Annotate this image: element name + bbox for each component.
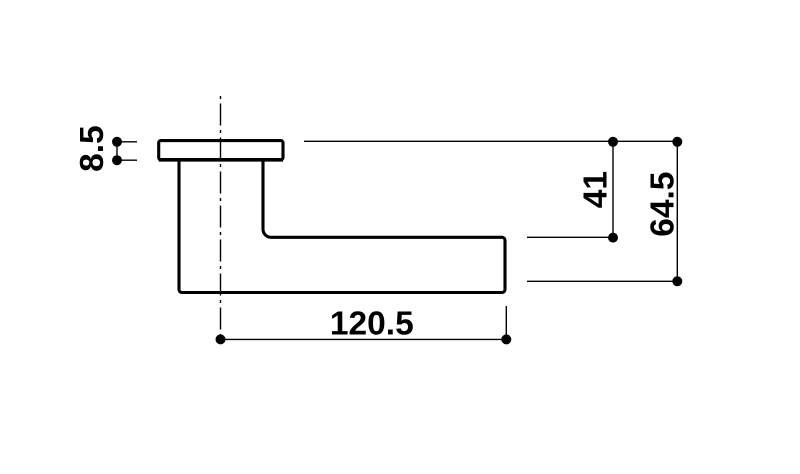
- dim 120.5 : right extension line: [505, 306, 507, 339]
- rose bottom edge (drawn heavier): [159, 158, 283, 162]
- dim 8.5 : extension stub top: [117, 141, 137, 143]
- dim 64.5 : dot bottom: [672, 276, 682, 286]
- svg-text:8.5: 8.5: [74, 125, 111, 172]
- svg-text:41: 41: [578, 171, 615, 208]
- dim 8.5 : extension stub bottom: [117, 159, 137, 161]
- handle lever outline (neck + L-shaped lever): [179, 160, 505, 293]
- shared top extension line (from rose top to 64.5 line): [304, 140, 677, 142]
- dim 41 : bottom extension line: [527, 236, 613, 238]
- dim 41 : dot top: [608, 137, 618, 147]
- dim 64.5 : bottom extension line: [527, 280, 677, 282]
- dim 41 : dot bottom: [608, 233, 618, 243]
- dim 8.5 : dot top: [112, 137, 122, 147]
- rose (rosette seen from side, 8.5 thick): [159, 141, 283, 160]
- dim 8.5 : dot bottom: [112, 155, 122, 165]
- centerline (dash-dot vertical axis of rose): [220, 96, 222, 340]
- dim 120.5 : dot right: [501, 334, 511, 344]
- dim 120.5 : dot left: [216, 334, 226, 344]
- dim 64.5 : dimension line: [676, 142, 678, 282]
- dim 41 : dimension line: [612, 142, 614, 238]
- svg-text:64.5: 64.5: [644, 172, 681, 237]
- dim 120.5 : dimension line: [221, 338, 507, 340]
- dim 64.5 : dot top: [672, 137, 682, 147]
- svg-text:120.5: 120.5: [330, 305, 414, 342]
- dim 8.5 : dimension line: [116, 142, 118, 160]
